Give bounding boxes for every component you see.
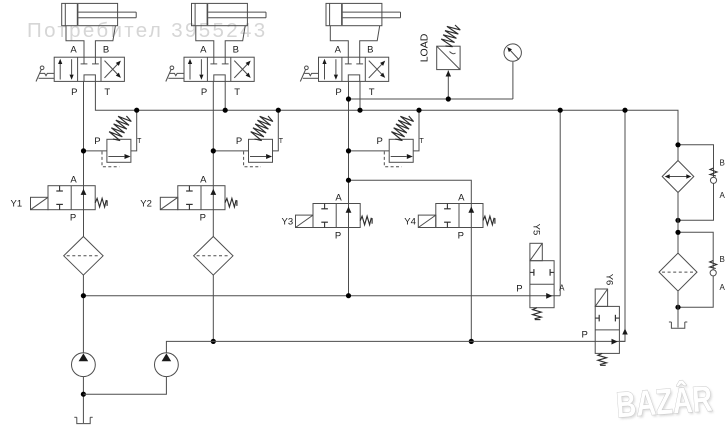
wire cylinder 1 port B to valve B xyxy=(95,26,115,58)
spring of relief valve RV3 xyxy=(391,116,413,141)
junction dot valve 3 T on bus xyxy=(357,108,362,113)
svg-text:P: P xyxy=(335,87,341,98)
wire LOAD valve to load line xyxy=(447,71,449,100)
svg-text:A: A xyxy=(458,193,465,204)
junction dot Y6 riser on bus xyxy=(622,108,627,113)
wire relief valve 3 T outlet to tank bus xyxy=(413,110,419,151)
solenoid valve Y5 (2/2) xyxy=(530,261,554,308)
label P of relief valve RV3 xyxy=(377,136,383,147)
label Y4 xyxy=(404,217,416,228)
port label T of valve V3 xyxy=(369,87,375,98)
junction dot relief 2 inlet xyxy=(211,148,216,153)
wire cooler to filter xyxy=(677,193,679,254)
junction dot Y4 line on pump2 rail xyxy=(469,339,474,344)
solenoid coil of Y2 xyxy=(160,197,178,209)
wire filter 2 down to pump 2 rail xyxy=(212,275,214,341)
solenoid coil of Y4 xyxy=(418,215,436,227)
junction dot relief 3 outlet on tank bus xyxy=(416,108,421,113)
svg-text:Y3: Y3 xyxy=(282,217,294,228)
svg-text:LOAD: LOAD xyxy=(419,33,431,62)
manual lever actuator of valve V1 xyxy=(36,66,54,82)
wire bypass around return filter xyxy=(678,232,713,307)
port label A of Y5 xyxy=(559,284,565,293)
port label T of valve V2 xyxy=(234,87,240,98)
label T of relief valve RV1 xyxy=(137,138,142,145)
spring of relief valve RV1 xyxy=(109,116,131,141)
solenoid valve Y2 (2/2) xyxy=(178,186,225,210)
svg-text:A: A xyxy=(335,44,342,55)
svg-text:P: P xyxy=(582,329,588,340)
pump P1 (fixed displacement) xyxy=(72,353,96,377)
port label A of valve V3 xyxy=(335,44,342,55)
wire relief valve 1 T outlet to tank bus xyxy=(131,110,137,151)
wire cylinder 3 port B to valve B xyxy=(360,26,380,58)
port label A of valve V1 xyxy=(70,44,77,55)
svg-text:Y4: Y4 xyxy=(404,217,416,228)
svg-text:B: B xyxy=(720,159,725,168)
return spring of Y2 xyxy=(225,198,237,207)
port label A of Y4 xyxy=(458,193,465,204)
svg-text:Y5: Y5 xyxy=(530,224,541,236)
wire cylinder 2 port A to valve A xyxy=(196,26,214,58)
wire relief valve 2 T outlet to tank bus xyxy=(273,110,279,151)
return spring of Y1 xyxy=(95,198,107,207)
label P of relief valve RV2 xyxy=(236,136,242,147)
LOAD unloading valve xyxy=(437,46,460,69)
wire pump 2 pressure rail to Y6 xyxy=(166,341,625,352)
svg-text:T: T xyxy=(104,87,110,98)
wire load-sense line to LOAD valve and gauge xyxy=(349,98,513,100)
port label P of valve V2 xyxy=(201,87,207,98)
flow direction arrow on Y6 riser xyxy=(622,329,628,335)
svg-text:B: B xyxy=(233,44,239,55)
svg-text:T: T xyxy=(279,138,284,145)
svg-text:P: P xyxy=(516,284,522,295)
junction dot filter1/pump1 node xyxy=(81,293,86,298)
svg-text:A: A xyxy=(200,175,207,186)
wire pressure line P2 from valve 2 down through Y2 to filter xyxy=(212,81,214,236)
svg-text:BAZÂR: BAZÂR xyxy=(615,377,714,426)
wire branch from Y3 node through Y4 to pump 2 line xyxy=(349,180,472,341)
manual lever actuator of valve V3 xyxy=(300,66,318,82)
pilot line (dashed) of relief valve RV1 xyxy=(102,152,119,167)
svg-text:P: P xyxy=(71,87,77,98)
tank T1 xyxy=(74,417,92,423)
label Y1 xyxy=(11,199,23,210)
label Y5 xyxy=(530,224,541,236)
directional valve V2 (4/3, lever operated) xyxy=(184,57,254,81)
wire pressure line P3 from valve 3 down through Y3 xyxy=(348,81,350,295)
filter F2 xyxy=(194,237,233,276)
svg-text:Потребител 3955243: Потребител 3955243 xyxy=(27,19,267,42)
svg-text:P: P xyxy=(70,213,76,224)
junction dot LOAD valve on load line xyxy=(446,96,451,101)
cylinder CYL2 xyxy=(192,3,267,25)
wire pressure line P1 from valve 1 down through Y1 to filter xyxy=(83,81,85,236)
spring of relief valve RV2 xyxy=(251,116,273,141)
check valve CV1 xyxy=(710,168,717,183)
label B of check valve CV1 xyxy=(720,159,725,168)
port label B of valve V2 xyxy=(233,44,239,55)
junction dot filter2 line on pump2 rail xyxy=(211,339,216,344)
tank T2 xyxy=(669,322,687,328)
solenoid valve Y1 (2/2) xyxy=(48,186,95,210)
wire filter to tank 2 xyxy=(677,291,679,327)
port label P of valve V3 xyxy=(335,87,341,98)
port label P of Y5 xyxy=(516,284,522,295)
return filter F3 xyxy=(659,253,697,291)
junction dot relief 3 inlet xyxy=(346,148,351,153)
wire filter 1 to pump 1 suction with branch xyxy=(82,275,84,353)
junction dot filter bypass bottom xyxy=(675,305,680,310)
wire cylinder 2 port B to valve B xyxy=(225,26,245,58)
junction dot suction node xyxy=(81,392,86,397)
label T of relief valve RV2 xyxy=(279,138,284,145)
cylinder CYL3 xyxy=(326,3,401,25)
pressure gauge xyxy=(504,44,521,61)
port label P of valve V1 xyxy=(71,87,77,98)
filter F1 xyxy=(64,237,103,276)
wire suction line to pump 2 xyxy=(83,377,166,395)
directional valve V3 (4/3, lever operated) xyxy=(319,57,389,81)
solenoid valve Y3 (2/2) xyxy=(313,204,360,228)
junction dot relief 2 outlet on tank bus xyxy=(276,108,281,113)
wire T return of valve 3 to bus xyxy=(359,81,361,110)
svg-text:P: P xyxy=(94,136,100,147)
check valve CV2 xyxy=(710,261,717,276)
label LOAD xyxy=(419,33,431,62)
cylinder CYL1 xyxy=(62,3,137,25)
svg-text:Y1: Y1 xyxy=(11,199,23,210)
svg-text:B: B xyxy=(367,44,373,55)
svg-text:T: T xyxy=(369,87,375,98)
wire cylinder 1 port A to valve A xyxy=(66,26,84,58)
pressure relief valve RV1 xyxy=(107,139,131,162)
svg-text:Y2: Y2 xyxy=(140,199,152,210)
return spring of Y3 xyxy=(360,216,372,225)
solenoid valve Y4 (2/2) xyxy=(436,204,483,228)
port label P of Y3 xyxy=(335,231,341,242)
svg-text:A: A xyxy=(70,175,77,186)
wire Y5 output riser to tank bus xyxy=(559,110,561,296)
label Y3 xyxy=(282,217,294,228)
svg-text:A: A xyxy=(335,193,342,204)
svg-text:P: P xyxy=(458,231,464,242)
manual lever actuator of valve V2 xyxy=(166,66,184,82)
wire gauge stem xyxy=(512,62,514,99)
solenoid coil of Y6 xyxy=(595,289,607,306)
svg-text:Y6: Y6 xyxy=(604,274,615,286)
label Y2 xyxy=(140,199,152,210)
wire Y6 output riser to tank bus xyxy=(619,110,625,341)
svg-text:T: T xyxy=(419,138,424,145)
solenoid coil of Y3 xyxy=(296,215,314,227)
directional valve V1 (4/3, lever operated) xyxy=(54,57,124,81)
solenoid valve Y6 (2/2) xyxy=(595,306,619,353)
junction dot P3 / load line xyxy=(346,96,351,101)
svg-text:P: P xyxy=(236,136,242,147)
port label P of Y6 xyxy=(582,329,588,340)
junction dot valve 2 T on bus xyxy=(223,108,228,113)
solenoid coil of Y5 xyxy=(530,243,542,260)
pressure relief valve RV2 xyxy=(249,139,273,162)
label A of check valve CV1 xyxy=(720,191,725,200)
svg-text:A: A xyxy=(559,284,565,293)
port label A of Y3 xyxy=(335,193,342,204)
solenoid coil of Y1 xyxy=(31,197,49,209)
svg-text:B: B xyxy=(103,44,109,55)
BAZAR watermark logo xyxy=(615,377,715,427)
svg-text:A: A xyxy=(720,283,725,292)
port label B of valve V3 xyxy=(367,44,373,55)
svg-text:A: A xyxy=(200,44,207,55)
junction dot relief 1 outlet on tank bus xyxy=(134,108,139,113)
wire cylinder 3 port A to valve A xyxy=(330,26,348,58)
port label T of valve V1 xyxy=(104,87,110,98)
port label P of Y4 xyxy=(458,231,464,242)
wire relief valve 1 inlet xyxy=(84,150,107,152)
wire pump 1 pressure rail to Y5 xyxy=(83,295,560,297)
label B of check valve CV2 xyxy=(720,255,725,264)
label T of relief valve RV3 xyxy=(419,138,424,145)
wire T return of valve 2 to bus xyxy=(224,81,226,110)
junction dot Y3 line on pump1 rail xyxy=(346,293,351,298)
label P of relief valve RV1 xyxy=(94,136,100,147)
svg-text:T: T xyxy=(137,138,142,145)
svg-text:T: T xyxy=(234,87,240,98)
svg-text:A: A xyxy=(720,191,725,200)
svg-text:P: P xyxy=(335,231,341,242)
port label A of Y1 xyxy=(70,175,77,186)
port label A of Y2 xyxy=(200,175,207,186)
junction dot relief 1 inlet xyxy=(81,148,86,153)
svg-text:A: A xyxy=(70,44,77,55)
junction dot branch to Y4 xyxy=(346,178,351,183)
junction dot Y5 riser on bus xyxy=(558,108,563,113)
label Y6 xyxy=(604,274,615,286)
wire relief valve 2 inlet xyxy=(213,150,248,152)
flow arrow into LOAD valve xyxy=(446,71,452,77)
pilot line (dashed) of relief valve RV3 xyxy=(384,152,401,167)
svg-text:P: P xyxy=(200,213,206,224)
port label P of Y1 xyxy=(70,213,76,224)
svg-text:B: B xyxy=(720,255,725,264)
return spring of Y5 xyxy=(533,308,542,320)
port label B of valve V1 xyxy=(103,44,109,55)
return spring of Y4 xyxy=(483,216,495,225)
junction dot cooler bypass bottom xyxy=(675,218,680,223)
wire tank return bus (T line) xyxy=(95,81,678,160)
watermark text xyxy=(27,19,267,42)
wire pump 1 to tank junction xyxy=(82,377,84,423)
svg-text:P: P xyxy=(377,136,383,147)
port label A of valve V2 xyxy=(200,44,207,55)
cooler (heat exchanger) xyxy=(662,161,694,193)
label A of check valve CV2 xyxy=(720,283,725,292)
port label P of Y2 xyxy=(200,213,206,224)
svg-text:P: P xyxy=(201,87,207,98)
pressure relief valve RV3 xyxy=(389,139,413,162)
wire bypass around cooler xyxy=(678,145,714,221)
junction dot cooler bypass top xyxy=(675,142,680,147)
junction dot filter bypass top xyxy=(675,230,680,235)
return spring of Y6 xyxy=(598,353,607,365)
pump P2 (fixed displacement) xyxy=(155,353,179,377)
wire relief valve 3 inlet xyxy=(349,150,390,152)
spring of LOAD valve xyxy=(441,25,460,47)
pilot line (dashed) of relief valve RV2 xyxy=(244,152,261,167)
